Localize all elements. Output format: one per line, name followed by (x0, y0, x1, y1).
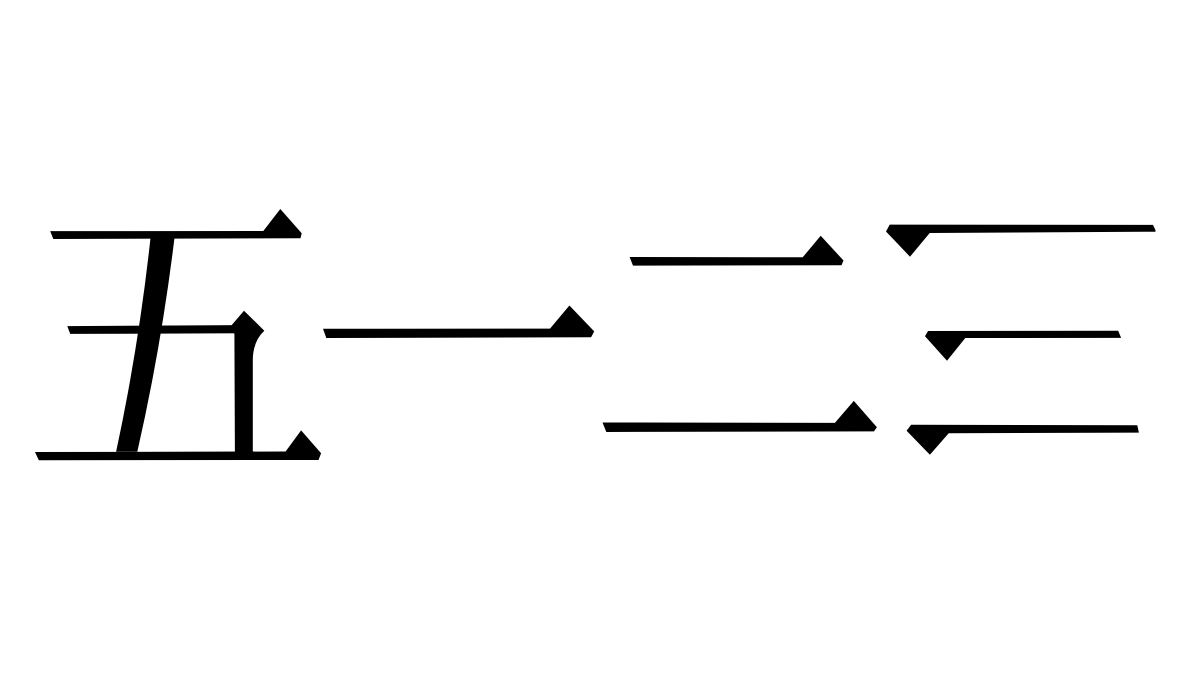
三(rotated) stroke 3: bottom bar with left-down serif (907, 425, 1139, 455)
五 stroke 3: middle horizontal bar (67, 325, 244, 334)
五 stroke 4: right vertical with hook (231, 311, 265, 453)
二 stroke 2: bottom horizontal bar with right serif (603, 401, 877, 432)
三(rotated) stroke 2: middle bar with left-down serif (925, 331, 1121, 361)
一 single horizontal bar with right serif (323, 306, 594, 339)
五 stroke 2: slanted left vertical (116, 236, 175, 452)
三(rotated) stroke 1: top bar with left-down serif (886, 225, 1156, 257)
二 stroke 1: top horizontal bar with right serif (630, 236, 844, 266)
五 stroke 5: bottom horizontal bar with right serif (35, 430, 321, 460)
五 stroke 1: top horizontal bar with right serif (50, 209, 302, 239)
